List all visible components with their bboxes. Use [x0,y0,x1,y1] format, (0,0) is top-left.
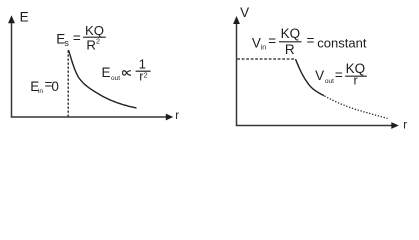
svg-text:KQ: KQ [281,26,301,41]
svg-text:out: out [325,78,334,85]
label V_in = KQ/R = constant [252,26,367,57]
right plot y-axis [233,16,240,126]
svg-text:2: 2 [144,71,148,80]
svg-text:V: V [315,68,324,83]
left curve E vs r (1/r^2 decay) [69,50,137,108]
svg-text:constant: constant [317,36,367,51]
label V_out = KQ/r [315,61,367,88]
svg-text:s: s [64,38,69,48]
svg-text:r: r [175,110,179,122]
svg-text:E: E [102,65,111,80]
svg-text:r: r [354,74,358,88]
svg-text:2: 2 [96,36,100,45]
svg-text:=: = [335,68,343,83]
svg-text:V: V [252,36,261,51]
svg-text:in: in [38,88,43,95]
right curve solid part V=KQ/r [296,59,325,96]
svg-text:in: in [261,45,267,52]
svg-text:=: = [307,33,315,48]
svg-text:E: E [20,10,29,25]
svg-text:r: r [403,120,407,132]
right plot x-axis [236,122,399,129]
label E_out proportional to 1/r^2 [102,57,151,84]
svg-text:0: 0 [51,79,59,94]
svg-text:KQ: KQ [85,23,104,38]
svg-text:=: = [268,33,276,48]
svg-text:out: out [111,75,120,82]
svg-text:R: R [285,42,295,57]
label E_in = 0 [30,77,59,95]
svg-text:=: = [73,31,81,46]
svg-text:V: V [240,5,249,20]
left dashed vertical line at r=R [67,51,69,117]
svg-text:R: R [86,38,96,53]
right dashed horizontal line at V=KQ/R [237,58,295,60]
label E_s = KQ/R^2 [56,23,106,53]
right curve dotted tail [325,96,388,118]
left plot x-axis [11,114,174,121]
left plot y-axis [8,15,15,117]
